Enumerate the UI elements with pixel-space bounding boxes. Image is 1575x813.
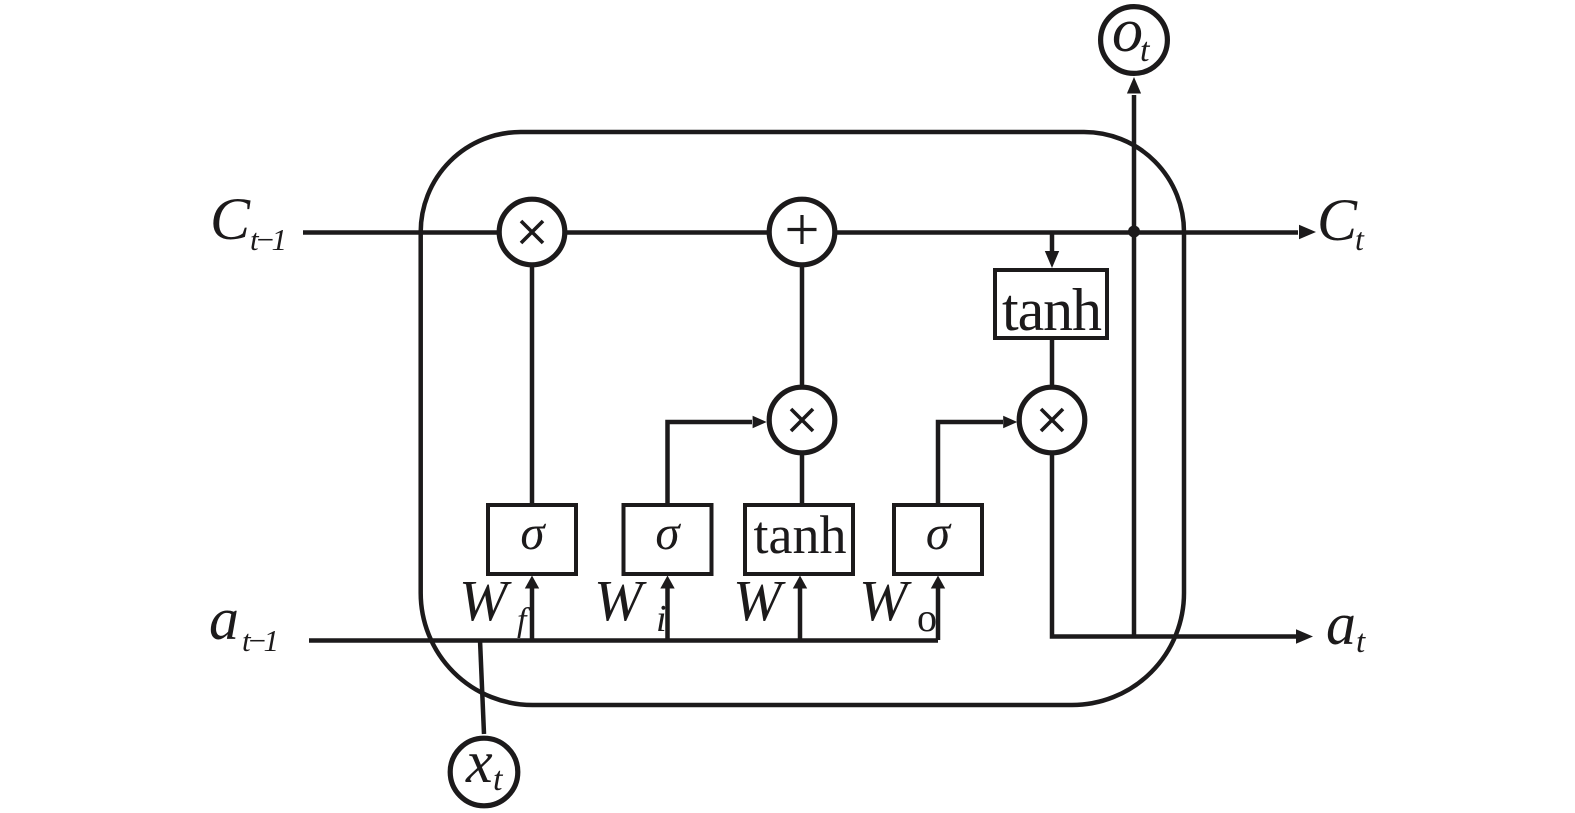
arrowhead up into sigma3 (931, 576, 945, 589)
wire forget-gate vertical (530, 264, 535, 505)
plus glyph (788, 215, 817, 244)
times circle forget gate (499, 199, 565, 265)
svg-text:σ: σ (926, 505, 952, 560)
arrowhead a(t) (1296, 629, 1313, 643)
box tanh top (995, 270, 1107, 338)
svg-text:o: o (917, 595, 937, 640)
svg-text:W: W (459, 568, 512, 633)
wire sigma3 to right-times (938, 422, 1003, 505)
times glyph right (1041, 409, 1063, 431)
junction dot on C line (1128, 226, 1140, 238)
plus circle (769, 199, 835, 265)
wire right-times down and a(t) out (1052, 452, 1298, 637)
svg-text:t: t (1140, 32, 1151, 69)
svg-text:f: f (517, 602, 531, 639)
times glyph forget gate (521, 221, 543, 243)
svg-text:tanh: tanh (1002, 277, 1102, 343)
wire up-arrow shaft tanh (798, 586, 803, 640)
arrowhead into top tanh (1045, 251, 1059, 268)
svg-text:tanh: tanh (754, 505, 847, 565)
arrowhead up into sigma1 (525, 576, 539, 589)
circle o(t) (1101, 7, 1168, 74)
arrowhead up into tanh (793, 576, 807, 589)
wire output branch up to o(t) (1132, 95, 1137, 637)
wire x(t) diagonal (480, 640, 484, 734)
wire C-line down to top tanh (1050, 233, 1055, 253)
svg-text:t−1: t−1 (250, 222, 287, 257)
wire up-arrow shaft sigma1 (530, 586, 535, 640)
arrowhead into mid-times (753, 416, 767, 429)
svg-text:C: C (1317, 187, 1358, 253)
LSTM cell rounded body (421, 132, 1184, 705)
box sigma1 (488, 505, 576, 574)
box sigma3 (894, 505, 982, 574)
arrowhead into right-times (1003, 416, 1017, 429)
wire plus to mid-times (800, 264, 805, 388)
svg-text:σ: σ (655, 505, 681, 560)
svg-text:a: a (209, 586, 239, 652)
circle x(t) (450, 738, 518, 806)
box sigma2 (624, 505, 712, 574)
svg-text:W: W (859, 568, 912, 633)
svg-text:a: a (1326, 591, 1356, 657)
svg-text:W: W (733, 568, 786, 633)
wire mid-times to tanh box (800, 452, 805, 505)
svg-text:i: i (656, 598, 667, 640)
svg-text:x: x (465, 729, 493, 795)
arrowhead o(t) (1127, 77, 1141, 94)
times circle middle (769, 387, 835, 453)
times glyph middle (791, 409, 813, 431)
svg-text:t: t (1356, 624, 1366, 660)
svg-text:C: C (210, 186, 251, 252)
wire sigma2 to mid-times (668, 422, 753, 505)
box tanh bottom (745, 505, 853, 574)
arrowhead up into sigma2 (660, 576, 674, 589)
wire a(t-1) in (309, 638, 938, 643)
svg-text:σ: σ (520, 505, 546, 560)
svg-text:t−1: t−1 (242, 623, 279, 658)
wire top tanh to right-times (1050, 338, 1055, 388)
svg-text:W: W (594, 568, 647, 633)
arrowhead C(t) (1299, 225, 1316, 239)
svg-text:t: t (1355, 221, 1365, 257)
svg-text:t: t (493, 761, 504, 798)
svg-text:o: o (1112, 0, 1143, 65)
wire up-arrow shaft sigma2 (665, 586, 670, 640)
times circle right (1019, 387, 1085, 453)
wire C(t-1) to C(t) (303, 230, 1298, 235)
wire up-arrow shaft sigma3 (936, 586, 941, 640)
